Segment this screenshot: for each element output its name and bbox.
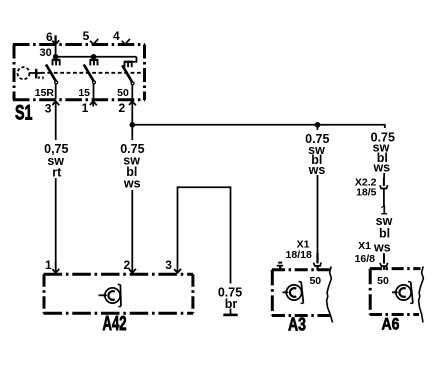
wire: bus 30 horizontal <box>56 56 137 58</box>
svg-text:4: 4 <box>113 29 120 43</box>
svg-text:A6: A6 <box>382 315 400 334</box>
svg-text:A3: A3 <box>288 314 306 335</box>
svg-text:6: 6 <box>46 30 53 44</box>
wire down to A3 <box>317 125 319 256</box>
node: bus/pole1 <box>53 54 59 60</box>
svg-text:ws: ws <box>372 161 390 175</box>
actuator link <box>30 69 44 79</box>
svg-text:3: 3 <box>45 101 52 115</box>
svg-text:rt: rt <box>52 165 62 179</box>
pin 4 arrow <box>122 39 130 44</box>
A3 internal symbol <box>283 282 304 304</box>
svg-text:2: 2 <box>123 258 130 272</box>
contact comb pole1 <box>52 60 61 66</box>
svg-text:1: 1 <box>82 101 89 115</box>
wire down to A6 <box>383 125 386 178</box>
node: bus/pole2 <box>91 54 97 60</box>
connector X1 16/8 symbol <box>380 255 388 270</box>
pin 1 arrow <box>90 101 97 105</box>
svg-text:18/18: 18/18 <box>286 249 312 261</box>
switch blade pole1 <box>46 65 56 82</box>
svg-text:18/5: 18/5 <box>356 186 377 198</box>
ground <box>223 309 237 315</box>
wire pole2 pivot to border <box>93 84 95 100</box>
svg-text:15R: 15R <box>35 87 55 99</box>
pin 2 arrow <box>129 101 136 105</box>
A3 aux connector hook <box>277 262 284 270</box>
label wire 0,75 sw rt <box>43 140 70 179</box>
wire horizontal distribution term 50 <box>132 124 385 126</box>
mechanical coupling dashed line <box>41 72 144 74</box>
A6 torn edge <box>419 267 424 323</box>
wire pole3 pivot to border <box>131 85 133 100</box>
connector X2.2 symbol <box>380 178 388 257</box>
svg-text:ws: ws <box>123 177 141 191</box>
A6 internal symbol <box>392 282 413 304</box>
node junction to A3 <box>315 122 321 128</box>
svg-text:bl: bl <box>379 226 390 240</box>
svg-text:30: 30 <box>39 47 51 59</box>
svg-text:3: 3 <box>165 258 172 272</box>
svg-text:50: 50 <box>377 275 389 287</box>
svg-text:A42: A42 <box>103 312 127 335</box>
svg-text:50: 50 <box>117 87 129 99</box>
label wire 1 sw bl ws (below X2.2) <box>373 204 395 255</box>
wire A42 pin3 bridge to ground <box>178 187 231 283</box>
svg-text:ws: ws <box>308 163 326 177</box>
svg-text:2: 2 <box>119 101 126 115</box>
A42 pin arrows <box>52 269 59 273</box>
pin 5 arrow <box>90 39 98 44</box>
switch S1 box border <box>13 45 145 101</box>
key actuator circle <box>18 67 30 79</box>
contact comb pole3 (offset left, closed contact) <box>124 61 133 67</box>
A42 pin1 stub <box>55 262 57 268</box>
pin 6 stub and arrow into S1 <box>52 35 59 44</box>
label wire 0.75 sw bl ws (col4 to A6) <box>371 128 397 175</box>
wire S1 pin2 to A42 pin2 <box>131 101 133 273</box>
contact comb pole2 <box>90 60 99 66</box>
svg-text:50: 50 <box>309 275 321 287</box>
svg-text:S1: S1 <box>15 102 33 125</box>
A42 internal symbol <box>99 284 122 306</box>
label wire 0.75 sw bl ws (col3 to A3) <box>304 130 331 177</box>
label wire 0.75 sw bl ws (col2) <box>119 140 146 191</box>
A3 torn edge <box>327 267 333 323</box>
wire pole1 pivot to border <box>55 84 57 100</box>
wire S1 pin3 to A42 pin1 <box>55 101 57 273</box>
wire: pin6 down to bus <box>55 44 57 57</box>
svg-text:ws: ws <box>373 240 391 254</box>
wire: bus drop to pole3 comb <box>124 57 137 62</box>
switch blade pole3 <box>122 65 132 82</box>
pin 3 arrow <box>52 101 59 105</box>
svg-text:16/8: 16/8 <box>355 253 376 265</box>
svg-text:15: 15 <box>78 87 90 99</box>
relay module A6 box <box>370 269 421 315</box>
node junction at pin2 wire <box>130 122 136 128</box>
svg-text:X1: X1 <box>358 240 371 252</box>
switch blade pole2 <box>84 65 94 82</box>
connector X1 18/18 symbol <box>314 253 322 271</box>
svg-text:1: 1 <box>45 258 52 272</box>
relay module A3 box <box>272 270 331 316</box>
svg-text:5: 5 <box>83 29 90 43</box>
control unit A42 box <box>44 274 193 313</box>
